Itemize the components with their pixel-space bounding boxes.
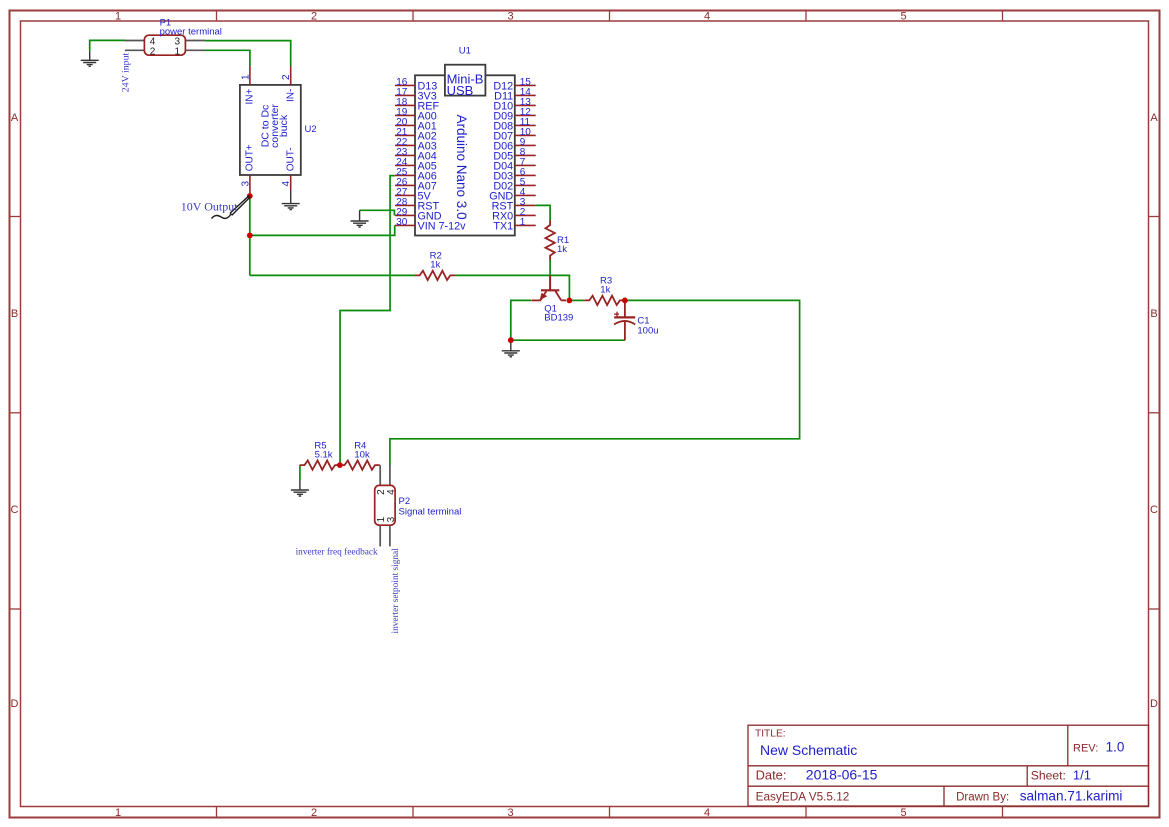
svg-text:EasyEDA V5.5.12: EasyEDA V5.5.12 xyxy=(756,789,850,803)
svg-text:D: D xyxy=(11,698,19,710)
svg-text:1k: 1k xyxy=(600,285,610,296)
svg-text:A: A xyxy=(1150,112,1158,124)
svg-text:2: 2 xyxy=(311,807,317,819)
svg-text:3: 3 xyxy=(507,11,513,23)
svg-text:4: 4 xyxy=(704,11,710,23)
svg-text:inverter freq feedback: inverter freq feedback xyxy=(296,547,378,558)
svg-text:buck: buck xyxy=(278,114,290,137)
svg-text:10V Output: 10V Output xyxy=(181,199,238,213)
svg-text:power terminal: power terminal xyxy=(160,26,222,37)
svg-text:Date:: Date: xyxy=(756,768,787,783)
svg-text:3: 3 xyxy=(386,516,397,522)
svg-text:BD139: BD139 xyxy=(544,312,573,323)
svg-text:C: C xyxy=(11,504,19,516)
svg-text:OUT-: OUT- xyxy=(286,147,297,171)
svg-text:2: 2 xyxy=(311,11,317,23)
svg-text:3: 3 xyxy=(241,181,252,187)
svg-text:B: B xyxy=(1150,308,1157,320)
svg-text:A: A xyxy=(11,112,19,124)
svg-text:1.0: 1.0 xyxy=(1106,739,1125,754)
svg-text:U1: U1 xyxy=(459,46,471,57)
svg-text:1/1: 1/1 xyxy=(1073,768,1091,783)
svg-text:B: B xyxy=(11,308,18,320)
svg-text:inverter setpoint signal: inverter setpoint signal xyxy=(391,548,401,634)
svg-text:3: 3 xyxy=(507,807,513,819)
svg-text:2: 2 xyxy=(150,47,156,58)
svg-text:D: D xyxy=(1150,698,1158,710)
svg-text:1k: 1k xyxy=(557,244,567,255)
svg-text:1: 1 xyxy=(520,217,526,228)
svg-text:1: 1 xyxy=(175,47,181,58)
svg-text:salman.71.karimi: salman.71.karimi xyxy=(1020,789,1123,804)
svg-text:REV:: REV: xyxy=(1073,742,1098,754)
svg-text:New Schematic: New Schematic xyxy=(760,742,857,758)
svg-text:Sheet:: Sheet: xyxy=(1031,769,1066,783)
svg-text:Signal terminal: Signal terminal xyxy=(399,506,462,517)
svg-text:1k: 1k xyxy=(430,260,440,271)
svg-text:IN-: IN- xyxy=(286,89,297,102)
svg-text:5: 5 xyxy=(900,807,906,819)
svg-text:Drawn By:: Drawn By: xyxy=(956,791,1009,803)
svg-text:30: 30 xyxy=(396,217,408,228)
svg-text:4: 4 xyxy=(386,489,397,495)
svg-text:VIN 7-12v: VIN 7-12v xyxy=(418,220,467,232)
svg-text:IN+: IN+ xyxy=(245,89,256,105)
svg-text:5: 5 xyxy=(900,11,906,23)
svg-text:1: 1 xyxy=(241,74,252,80)
svg-text:10k: 10k xyxy=(354,450,370,461)
svg-text:24V input: 24V input xyxy=(121,52,132,92)
svg-text:1: 1 xyxy=(115,11,121,23)
svg-text:4: 4 xyxy=(704,807,710,819)
svg-text:2018-06-15: 2018-06-15 xyxy=(806,767,878,783)
svg-text:C: C xyxy=(1150,504,1158,516)
svg-text:USB: USB xyxy=(447,83,474,98)
svg-text:U2: U2 xyxy=(305,124,317,135)
svg-text:TX1: TX1 xyxy=(493,220,513,232)
svg-text:4: 4 xyxy=(281,181,292,187)
svg-text:2: 2 xyxy=(281,74,292,80)
svg-text:1: 1 xyxy=(115,807,121,819)
svg-text:100u: 100u xyxy=(637,326,658,337)
svg-text:TITLE:: TITLE: xyxy=(755,729,786,740)
svg-text:Arduino Nano 3.0: Arduino Nano 3.0 xyxy=(454,115,469,220)
svg-text:5.1k: 5.1k xyxy=(315,450,333,461)
svg-text:OUT+: OUT+ xyxy=(245,144,256,171)
